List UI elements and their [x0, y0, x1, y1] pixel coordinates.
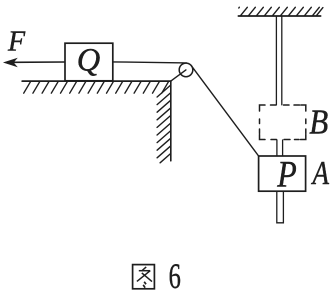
- svg-text:B: B: [309, 102, 328, 141]
- svg-text:F: F: [7, 27, 26, 58]
- caption character 图: [133, 265, 155, 289]
- svg-text:P: P: [276, 155, 296, 196]
- table surface: [22, 80, 171, 82]
- svg-text:A: A: [311, 155, 329, 192]
- pulley: [179, 63, 193, 77]
- string pulley to P: [191, 66, 258, 156]
- dashed box B: [260, 105, 306, 140]
- wall edge: [170, 81, 172, 161]
- rod ceiling to B: [276, 17, 281, 105]
- table hatching: [24, 82, 169, 94]
- rod below P: [277, 192, 284, 223]
- wall hatching: [157, 85, 171, 163]
- string Q to pulley: [113, 62, 187, 63]
- block Q: [65, 43, 113, 81]
- pulley support: [171, 70, 186, 81]
- rod B to P: [277, 140, 283, 156]
- force arrow F: [14, 61, 65, 63]
- block P: [259, 156, 306, 191]
- svg-text:Q: Q: [77, 42, 100, 78]
- ceiling hatching: [239, 7, 323, 16]
- ceiling: [238, 15, 320, 17]
- svg-text:6: 6: [169, 256, 181, 292]
